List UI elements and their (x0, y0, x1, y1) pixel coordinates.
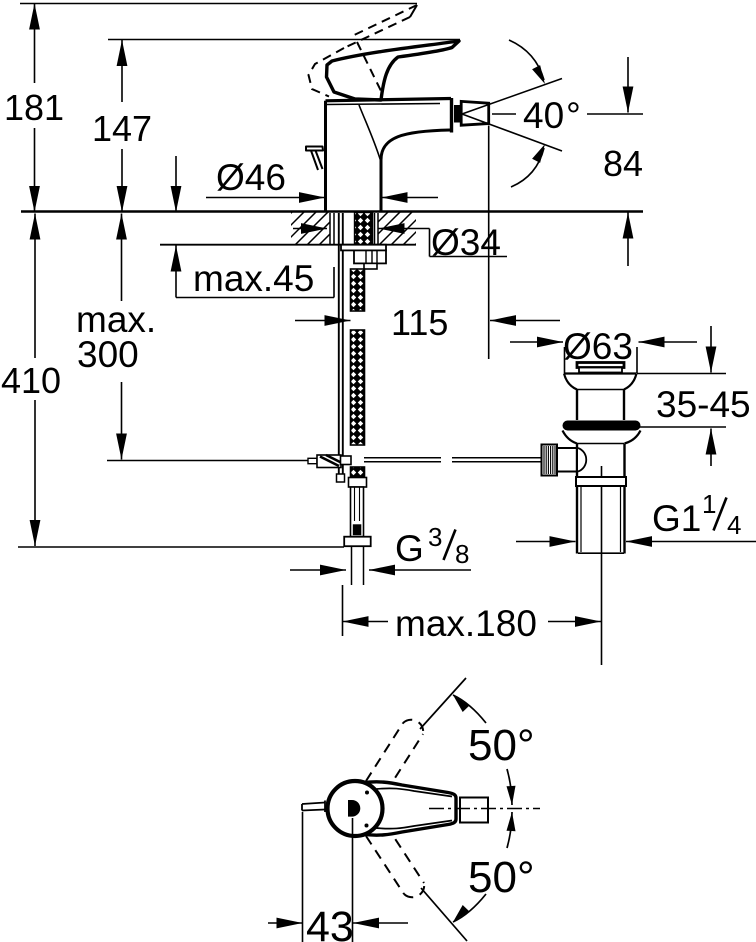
svg-text:43: 43 (306, 903, 354, 942)
svg-text:300: 300 (77, 334, 139, 375)
svg-text:115: 115 (391, 302, 448, 343)
svg-text:3: 3 (428, 522, 442, 552)
svg-text:max.45: max.45 (193, 258, 314, 299)
svg-text:84: 84 (603, 143, 643, 184)
svg-text:Ø63: Ø63 (563, 326, 633, 367)
svg-text:40: 40 (523, 95, 564, 136)
svg-text:1: 1 (702, 489, 716, 519)
svg-text:Ø46: Ø46 (216, 157, 286, 198)
svg-text:G: G (395, 528, 424, 569)
svg-text:35-45: 35-45 (656, 384, 751, 425)
svg-text:181: 181 (4, 87, 64, 128)
svg-text:max.180: max.180 (395, 603, 537, 644)
svg-text:8: 8 (455, 539, 469, 569)
svg-text:4: 4 (727, 510, 741, 540)
svg-text:50°: 50° (468, 721, 535, 770)
svg-text:G1: G1 (652, 498, 701, 539)
svg-text:410: 410 (1, 360, 61, 401)
svg-text:147: 147 (92, 108, 152, 149)
svg-text:°: ° (566, 95, 581, 136)
svg-text:Ø34: Ø34 (431, 222, 501, 263)
svg-text:50°: 50° (468, 853, 535, 902)
